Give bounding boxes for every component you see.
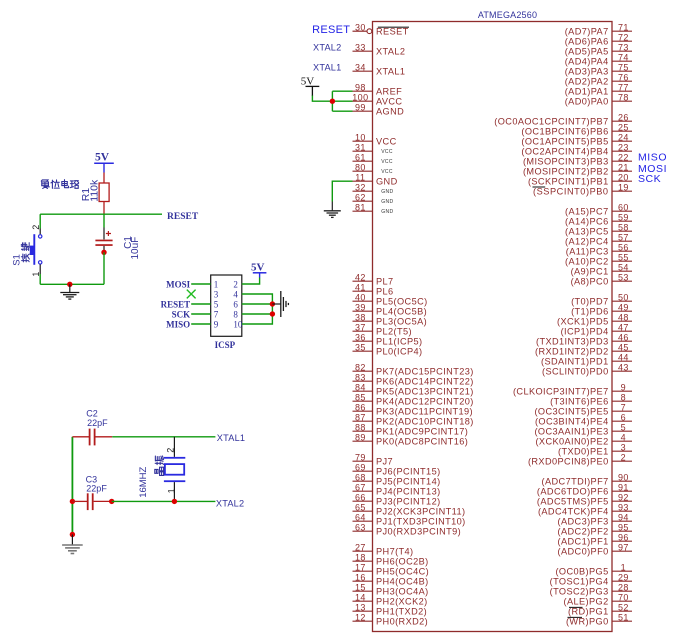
- svg-text:96: 96: [618, 532, 629, 542]
- svg-text:100: 100: [352, 92, 368, 102]
- svg-text:PJ0(RXD3PCINT9): PJ0(RXD3PCINT9): [376, 527, 461, 537]
- svg-text:77: 77: [618, 82, 629, 92]
- svg-text:5: 5: [621, 422, 626, 432]
- svg-text:PH2(XCK2): PH2(XCK2): [376, 597, 428, 607]
- svg-text:99: 99: [355, 102, 366, 112]
- svg-text:PJ6(PCINT15): PJ6(PCINT15): [376, 467, 441, 477]
- svg-text:43: 43: [618, 362, 629, 372]
- svg-text:61: 61: [355, 152, 366, 162]
- svg-text:PJ4(PCINT13): PJ4(PCINT13): [376, 487, 441, 497]
- svg-text:PJ2(XCK3PCINT11): PJ2(XCK3PCINT11): [376, 507, 465, 517]
- svg-text:(CLKOICP3INT7)PE7: (CLKOICP3INT7)PE7: [513, 387, 609, 397]
- svg-text:RESET: RESET: [161, 299, 191, 309]
- svg-text:55: 55: [618, 252, 629, 262]
- svg-text:32: 32: [355, 182, 366, 192]
- svg-text:87: 87: [355, 412, 366, 422]
- svg-text:(OC3AAIN1)PE3: (OC3AAIN1)PE3: [534, 427, 608, 437]
- svg-text:PH3(OC4A): PH3(OC4A): [376, 587, 429, 597]
- svg-text:10: 10: [233, 319, 243, 329]
- svg-text:29: 29: [618, 572, 629, 582]
- svg-text:33: 33: [355, 42, 366, 52]
- svg-text:17: 17: [355, 562, 366, 572]
- svg-text:6: 6: [233, 299, 238, 309]
- svg-text:25: 25: [618, 122, 629, 132]
- svg-text:(OC1BPCINT6)PB6: (OC1BPCINT6)PB6: [521, 127, 608, 137]
- svg-text:PL1(ICP5): PL1(ICP5): [376, 337, 423, 347]
- svg-text:MISO: MISO: [638, 152, 667, 164]
- svg-text:51: 51: [618, 612, 629, 622]
- svg-text:30: 30: [355, 22, 366, 32]
- svg-text:1: 1: [31, 272, 41, 277]
- svg-text:41: 41: [355, 282, 366, 292]
- svg-text:(ADC0)PF0: (ADC0)PF0: [558, 547, 609, 557]
- svg-text:AGND: AGND: [376, 107, 404, 117]
- svg-text:(A11)PC3: (A11)PC3: [566, 247, 609, 257]
- svg-text:62: 62: [355, 192, 366, 202]
- svg-text:83: 83: [355, 372, 366, 382]
- svg-text:73: 73: [618, 42, 629, 52]
- svg-text:31: 31: [355, 142, 366, 152]
- svg-text:36: 36: [355, 332, 366, 342]
- svg-text:54: 54: [618, 262, 629, 272]
- svg-text:10: 10: [355, 132, 366, 142]
- svg-text:(RXD0PCIN8)PE0: (RXD0PCIN8)PE0: [528, 457, 609, 467]
- svg-text:75: 75: [618, 62, 629, 72]
- svg-text:(TXD0)PE1: (TXD0)PE1: [558, 447, 609, 457]
- svg-text:26: 26: [618, 112, 629, 122]
- svg-text:XTAL2: XTAL2: [376, 47, 405, 57]
- svg-text:48: 48: [618, 312, 629, 322]
- svg-text:10uF: 10uF: [130, 237, 141, 260]
- svg-text:PJ5(PCINT14): PJ5(PCINT14): [376, 477, 441, 487]
- svg-text:(A8)PC0: (A8)PC0: [571, 277, 609, 287]
- svg-text:47: 47: [618, 322, 629, 332]
- svg-text:23: 23: [618, 142, 629, 152]
- svg-text:PH4(OC4B): PH4(OC4B): [376, 577, 429, 587]
- svg-text:(MOSIPCINT2)PB2: (MOSIPCINT2)PB2: [523, 167, 609, 177]
- svg-text:PJ7: PJ7: [376, 457, 393, 467]
- svg-text:18: 18: [355, 552, 366, 562]
- svg-text:39: 39: [355, 302, 366, 312]
- svg-text:88: 88: [355, 422, 366, 432]
- svg-text:(ADC3)PF3: (ADC3)PF3: [558, 517, 609, 527]
- svg-text:GND: GND: [381, 199, 393, 205]
- svg-text:80: 80: [355, 162, 366, 172]
- svg-text:14: 14: [355, 592, 366, 602]
- svg-text:79: 79: [355, 452, 366, 462]
- svg-text:59: 59: [618, 212, 629, 222]
- svg-text:4: 4: [621, 432, 626, 442]
- svg-text:VCC: VCC: [381, 169, 393, 175]
- svg-text:XTAL2: XTAL2: [216, 498, 244, 508]
- svg-text:69: 69: [355, 462, 366, 472]
- svg-text:MOSI: MOSI: [166, 279, 191, 289]
- svg-text:(T3INT6)PE6: (T3INT6)PE6: [550, 397, 609, 407]
- svg-text:(SSPCINT0)PB0: (SSPCINT0)PB0: [533, 187, 609, 197]
- svg-text:PH5(OC4C): PH5(OC4C): [376, 567, 429, 577]
- svg-text:(ADC7TDI)PF7: (ADC7TDI)PF7: [542, 477, 609, 487]
- svg-text:70: 70: [618, 592, 629, 602]
- svg-text:22pF: 22pF: [86, 483, 107, 493]
- svg-text:(XCK0AIN0)PE2: (XCK0AIN0)PE2: [535, 437, 608, 447]
- svg-text:PK2(ADC10PCINT18): PK2(ADC10PCINT18): [376, 417, 474, 427]
- svg-text:22: 22: [618, 152, 629, 162]
- svg-text:3: 3: [214, 289, 219, 299]
- svg-text:VCC: VCC: [381, 149, 393, 155]
- svg-text:(ALE)PG2: (ALE)PG2: [564, 597, 609, 607]
- svg-text:(ADC5TMS)PF5: (ADC5TMS)PF5: [537, 497, 609, 507]
- svg-text:67: 67: [355, 482, 366, 492]
- svg-text:GND: GND: [376, 177, 398, 187]
- svg-text:94: 94: [618, 512, 629, 522]
- svg-text:8: 8: [621, 392, 626, 402]
- svg-text:VCC: VCC: [376, 137, 397, 147]
- svg-text:13: 13: [355, 602, 366, 612]
- svg-text:(A9)PC1: (A9)PC1: [571, 267, 609, 277]
- svg-text:7: 7: [621, 402, 626, 412]
- svg-text:5V: 5V: [95, 151, 110, 163]
- svg-text:16MHZ: 16MHZ: [138, 466, 149, 497]
- svg-text:93: 93: [618, 502, 629, 512]
- svg-text:(AD5)PA5: (AD5)PA5: [565, 47, 609, 57]
- svg-text:SCK: SCK: [172, 309, 191, 319]
- svg-text:XTAL1: XTAL1: [376, 67, 405, 77]
- svg-text:22pF: 22pF: [87, 418, 108, 428]
- svg-text:(OC3CINT5)PE5: (OC3CINT5)PE5: [534, 407, 608, 417]
- svg-text:AVCC: AVCC: [376, 97, 402, 107]
- svg-text:PK6(ADC14PCINT22): PK6(ADC14PCINT22): [376, 377, 474, 387]
- svg-text:2: 2: [165, 448, 175, 453]
- svg-text:PK0(ADC8PCINT16): PK0(ADC8PCINT16): [376, 437, 468, 447]
- svg-text:1: 1: [214, 279, 219, 289]
- svg-text:72: 72: [618, 32, 629, 42]
- svg-text:ATMEGA2560: ATMEGA2560: [478, 10, 537, 20]
- svg-text:4: 4: [233, 289, 238, 299]
- svg-text:(AD2)PA2: (AD2)PA2: [565, 77, 609, 87]
- svg-text:PH0(RXD2): PH0(RXD2): [376, 617, 428, 627]
- svg-text:(AD1)PA1: (AD1)PA1: [565, 87, 609, 97]
- svg-text:PJ1(TXD3PCINT10): PJ1(TXD3PCINT10): [376, 517, 466, 527]
- svg-text:(A15)PC7: (A15)PC7: [565, 207, 609, 217]
- svg-text:86: 86: [355, 402, 366, 412]
- svg-text:76: 76: [618, 72, 629, 82]
- svg-text:(ADC1)PF1: (ADC1)PF1: [558, 537, 609, 547]
- svg-text:C2: C2: [86, 408, 98, 418]
- svg-text:98: 98: [355, 82, 366, 92]
- svg-text:(A14)PC6: (A14)PC6: [565, 217, 609, 227]
- svg-text:(RXD1INT2)PD2: (RXD1INT2)PD2: [535, 347, 609, 357]
- svg-text:74: 74: [618, 52, 629, 62]
- svg-text:11: 11: [355, 172, 365, 182]
- svg-text:49: 49: [618, 302, 629, 312]
- svg-text:(OC0AOC1CPCINT7)PB7: (OC0AOC1CPCINT7)PB7: [494, 117, 608, 127]
- svg-text:(ADC4TCK)PF4: (ADC4TCK)PF4: [538, 507, 609, 517]
- svg-text:MISO: MISO: [166, 319, 190, 329]
- svg-text:RESET: RESET: [167, 212, 199, 222]
- svg-text:110k: 110k: [88, 179, 100, 202]
- svg-text:(OC0B)PG5: (OC0B)PG5: [555, 567, 608, 577]
- svg-text:20: 20: [618, 172, 629, 182]
- svg-text:2: 2: [31, 225, 41, 230]
- svg-text:8: 8: [233, 309, 238, 319]
- svg-text:(OC1APCINT5)PB5: (OC1APCINT5)PB5: [521, 137, 608, 147]
- svg-text:PH6(OC2B): PH6(OC2B): [376, 557, 429, 567]
- svg-text:52: 52: [618, 602, 629, 612]
- svg-text:PL4(OC5B): PL4(OC5B): [376, 307, 427, 317]
- svg-text:24: 24: [618, 132, 629, 142]
- svg-text:28: 28: [618, 582, 629, 592]
- svg-text:PL2(T5): PL2(T5): [376, 327, 412, 337]
- svg-text:65: 65: [355, 502, 366, 512]
- svg-text:GND: GND: [381, 209, 393, 215]
- svg-text:(RD)PG1: (RD)PG1: [568, 607, 609, 617]
- svg-text:(ADC2)PF2: (ADC2)PF2: [558, 527, 609, 537]
- svg-text:PK5(ADC13PCINT21): PK5(ADC13PCINT21): [376, 387, 474, 397]
- svg-text:PK3(ADC11PCINT19): PK3(ADC11PCINT19): [376, 407, 473, 417]
- svg-text:27: 27: [355, 542, 366, 552]
- svg-text:57: 57: [618, 232, 629, 242]
- svg-text:RESET: RESET: [376, 27, 409, 37]
- svg-text:(AD4)PA4: (AD4)PA4: [565, 57, 609, 67]
- svg-text:85: 85: [355, 392, 366, 402]
- svg-text:58: 58: [618, 222, 629, 232]
- svg-text:(XCK1)PD5: (XCK1)PD5: [557, 317, 609, 327]
- svg-text:(SCKPCINT1)PB1: (SCKPCINT1)PB1: [528, 177, 609, 187]
- svg-text:(T1)PD6: (T1)PD6: [571, 307, 609, 317]
- svg-text:PH7(T4): PH7(T4): [376, 547, 414, 557]
- svg-text:(ADC6TDO)PF6: (ADC6TDO)PF6: [537, 487, 609, 497]
- svg-text:90: 90: [618, 472, 629, 482]
- svg-text:(A13)PC5: (A13)PC5: [565, 227, 609, 237]
- svg-text:7: 7: [214, 309, 219, 319]
- svg-text:97: 97: [618, 542, 629, 552]
- svg-text:95: 95: [618, 522, 629, 532]
- svg-text:38: 38: [355, 312, 366, 322]
- svg-text:(AD0)PA0: (AD0)PA0: [565, 97, 609, 107]
- svg-text:(TOSC1)PG4: (TOSC1)PG4: [550, 577, 609, 587]
- svg-text:89: 89: [355, 432, 366, 442]
- svg-text:(WR)PG0: (WR)PG0: [566, 617, 609, 627]
- svg-text:60: 60: [618, 202, 629, 212]
- svg-text:AREF: AREF: [376, 87, 402, 97]
- svg-text:45: 45: [618, 342, 629, 352]
- svg-text:16: 16: [355, 572, 366, 582]
- svg-text:82: 82: [355, 362, 366, 372]
- svg-text:21: 21: [618, 162, 629, 172]
- svg-text:GND: GND: [381, 189, 393, 195]
- svg-text:XTAL2: XTAL2: [313, 42, 341, 52]
- svg-text:(TOSC2)PG3: (TOSC2)PG3: [550, 587, 609, 597]
- svg-text:(ICP1)PD4: (ICP1)PD4: [561, 327, 609, 337]
- svg-text:SCK: SCK: [638, 173, 661, 185]
- svg-text:66: 66: [355, 492, 366, 502]
- svg-text:12: 12: [355, 612, 366, 622]
- svg-text:PL7: PL7: [376, 277, 394, 287]
- svg-text:71: 71: [618, 22, 629, 32]
- svg-text:9: 9: [621, 382, 626, 392]
- svg-text:(A12)PC4: (A12)PC4: [565, 237, 609, 247]
- svg-text:56: 56: [618, 242, 629, 252]
- svg-text:PL3(OC5A): PL3(OC5A): [376, 317, 427, 327]
- svg-text:RESET: RESET: [312, 24, 350, 36]
- svg-text:XTAL1: XTAL1: [313, 62, 341, 72]
- svg-text:S1: S1: [12, 254, 23, 266]
- svg-text:19: 19: [618, 182, 629, 192]
- svg-text:(AD3)PA3: (AD3)PA3: [565, 67, 609, 77]
- svg-text:37: 37: [355, 322, 366, 332]
- svg-text:42: 42: [355, 272, 366, 282]
- svg-text:2: 2: [621, 452, 626, 462]
- svg-text:35: 35: [355, 342, 366, 352]
- svg-text:PK1(ADC9PCINT17): PK1(ADC9PCINT17): [376, 427, 468, 437]
- svg-text:PK7(ADC15PCINT23): PK7(ADC15PCINT23): [376, 367, 474, 377]
- svg-text:1: 1: [621, 562, 626, 572]
- svg-text:50: 50: [618, 292, 629, 302]
- svg-text:(OC2APCINT4)PB4: (OC2APCINT4)PB4: [521, 147, 608, 157]
- svg-text:92: 92: [618, 492, 629, 502]
- svg-text:64: 64: [355, 512, 366, 522]
- svg-text:5V: 5V: [301, 76, 315, 88]
- svg-text:(MISOPCINT3)PB3: (MISOPCINT3)PB3: [523, 157, 609, 167]
- svg-text:(AD6)PA6: (AD6)PA6: [565, 37, 609, 47]
- svg-text:81: 81: [355, 202, 366, 212]
- svg-text:9: 9: [214, 319, 219, 329]
- svg-text:3: 3: [621, 442, 626, 452]
- svg-text:2: 2: [233, 279, 238, 289]
- svg-text:46: 46: [618, 332, 629, 342]
- svg-text:15: 15: [355, 582, 366, 592]
- svg-text:PL6: PL6: [376, 287, 394, 297]
- svg-text:VCC: VCC: [381, 159, 393, 165]
- svg-text:PK4(ADC12PCINT20): PK4(ADC12PCINT20): [376, 397, 474, 407]
- svg-text:68: 68: [355, 472, 366, 482]
- svg-text:5: 5: [214, 299, 219, 309]
- svg-text:78: 78: [618, 92, 629, 102]
- svg-text:(OC3BINT4)PE4: (OC3BINT4)PE4: [535, 417, 609, 427]
- svg-text:(AD7)PA7: (AD7)PA7: [565, 27, 609, 37]
- svg-text:(SCLINT0)PD0: (SCLINT0)PD0: [542, 367, 609, 377]
- svg-text:5V: 5V: [251, 261, 265, 273]
- svg-text:91: 91: [618, 482, 629, 492]
- svg-text:PL5(OC5C): PL5(OC5C): [376, 297, 428, 307]
- svg-text:(TXD1INT3)PD3: (TXD1INT3)PD3: [536, 337, 609, 347]
- svg-text:XTAL1: XTAL1: [217, 433, 245, 443]
- svg-text:(T0)PD7: (T0)PD7: [571, 297, 609, 307]
- svg-text:84: 84: [355, 382, 366, 392]
- svg-text:(A10)PC2: (A10)PC2: [565, 257, 609, 267]
- svg-text:PL0(ICP4): PL0(ICP4): [376, 347, 423, 357]
- svg-text:(SDAINT1)PD1: (SDAINT1)PD1: [541, 357, 609, 367]
- svg-text:6: 6: [621, 412, 626, 422]
- svg-text:40: 40: [355, 292, 366, 302]
- svg-text:ICSP: ICSP: [215, 340, 236, 350]
- svg-text:34: 34: [355, 62, 366, 72]
- svg-text:53: 53: [618, 272, 629, 282]
- svg-text:1: 1: [166, 488, 176, 493]
- svg-text:PJ3(PCINT12): PJ3(PCINT12): [376, 497, 441, 507]
- svg-text:PH1(TXD2): PH1(TXD2): [376, 607, 427, 617]
- svg-text:44: 44: [618, 352, 629, 362]
- svg-text:63: 63: [355, 522, 366, 532]
